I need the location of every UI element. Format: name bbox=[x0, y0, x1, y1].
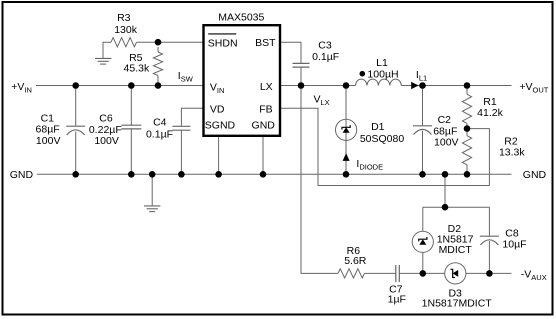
ground (R3) bbox=[95, 58, 111, 64]
resistor R1 bbox=[462, 94, 471, 123]
wire pump node to D3 bbox=[423, 272, 445, 274]
wire LX node down to R6 bbox=[301, 86, 338, 274]
svg-text:0.1µF: 0.1µF bbox=[312, 51, 339, 63]
ground (GND rail) bbox=[144, 206, 160, 212]
svg-text:C3: C3 bbox=[318, 40, 332, 52]
svg-text:0.1µF: 0.1µF bbox=[146, 129, 173, 141]
wire VD pin to C4 bbox=[181, 108, 203, 126]
wire R1 to FB node bbox=[466, 123, 468, 128]
node R1/R2/FB junction bbox=[464, 125, 471, 132]
node D2/C8 link junction bbox=[442, 204, 449, 211]
wire C2 to GND rail bbox=[422, 131, 424, 175]
wire FB node to R2 bbox=[466, 129, 468, 136]
capacitor C4 bbox=[172, 126, 190, 130]
svg-text:FB: FB bbox=[259, 104, 272, 116]
wire GND pin to GND rail bbox=[262, 136, 264, 175]
current arrow I_L1 bbox=[411, 82, 418, 89]
diode D1 (schottky) bbox=[336, 119, 357, 140]
node GND pin junction bbox=[260, 171, 267, 178]
capacitor C2 (polarized) bbox=[413, 126, 432, 135]
svg-text:C1: C1 bbox=[41, 112, 55, 124]
svg-text:10µF: 10µF bbox=[502, 238, 526, 250]
wire C3 to LX rail bbox=[300, 67, 302, 85]
svg-text:L1: L1 bbox=[376, 57, 388, 69]
diode D2 (schottky) bbox=[412, 231, 433, 252]
svg-text:SHDN: SHDN bbox=[208, 37, 238, 49]
wire +VOUT rail to C2 bbox=[422, 86, 424, 126]
wire GND rail down to D2/C8 node bbox=[444, 174, 446, 207]
node C6 top junction bbox=[128, 82, 135, 89]
svg-text:BST: BST bbox=[255, 37, 276, 49]
svg-text:C2: C2 bbox=[438, 114, 452, 126]
wire R6 to C7 bbox=[365, 272, 396, 274]
wire C7 to pump node bbox=[399, 272, 423, 274]
svg-text:100V: 100V bbox=[434, 137, 459, 149]
node R2 bottom junction bbox=[464, 171, 471, 178]
svg-text:GND: GND bbox=[252, 120, 276, 132]
wire L1 to +VOUT bbox=[401, 85, 511, 87]
node C6 bottom junction bbox=[128, 171, 135, 178]
resistor R6 bbox=[338, 269, 365, 278]
svg-text:R3: R3 bbox=[117, 12, 131, 24]
wire D2/C8 top link bbox=[423, 206, 490, 208]
svg-text:VD: VD bbox=[210, 104, 225, 116]
wire D2 anode to pump node bbox=[422, 252, 424, 273]
wire +VOUT rail to R1 bbox=[466, 86, 468, 95]
svg-text:LX: LX bbox=[260, 81, 273, 93]
svg-text:41.2k: 41.2k bbox=[477, 107, 503, 119]
wire +VIN rail to C1 bbox=[75, 86, 77, 126]
svg-text:GND: GND bbox=[523, 169, 547, 181]
svg-text:C6: C6 bbox=[99, 112, 113, 124]
wire R3 left to ground bbox=[103, 42, 111, 58]
node LX/D1 junction bbox=[343, 82, 350, 89]
wire link to C8 bbox=[488, 207, 490, 236]
node C1 bottom junction bbox=[72, 171, 79, 178]
svg-text:100V: 100V bbox=[36, 135, 61, 147]
node C4 bottom junction bbox=[178, 171, 185, 178]
resistor R3 bbox=[111, 38, 136, 47]
node L1/C2/+VOUT junction bbox=[419, 82, 426, 89]
capacitor C3 bbox=[293, 63, 310, 67]
wire LX pin to L1 bbox=[280, 85, 356, 87]
node D1 bottom junction bbox=[343, 171, 350, 178]
diode D3 (schottky) bbox=[445, 263, 466, 284]
svg-text:100V: 100V bbox=[94, 135, 119, 147]
svg-text:50SQ080: 50SQ080 bbox=[360, 133, 405, 145]
wire R2 to GND rail bbox=[466, 165, 468, 175]
svg-text:MDICT: MDICT bbox=[439, 244, 473, 256]
svg-text:68µF: 68µF bbox=[36, 124, 60, 136]
wire BST pin to C3 bbox=[280, 42, 301, 63]
node charge-pump junction bbox=[420, 270, 427, 277]
wire D3 to -VAUX output bbox=[466, 272, 512, 274]
svg-text:MAX5035: MAX5035 bbox=[218, 11, 264, 23]
resistor R2 bbox=[462, 136, 471, 165]
wire R5 to +VIN rail bbox=[157, 76, 159, 86]
op-amp U1: MAX5035 regulator IC box bbox=[204, 25, 281, 136]
wire FB pin to R1/R2 divider node bbox=[280, 108, 489, 185]
node ground-symbol junction bbox=[149, 171, 156, 178]
svg-text:GND: GND bbox=[10, 169, 34, 181]
wire C8 to -VAUX rail bbox=[488, 241, 490, 273]
node R5 bottom junction bbox=[155, 82, 162, 89]
svg-text:13.3k: 13.3k bbox=[499, 146, 525, 158]
wire LX node through D1 to GND rail bbox=[345, 86, 347, 175]
svg-text:5.6R: 5.6R bbox=[344, 255, 367, 267]
capacitor C6 bbox=[121, 125, 141, 129]
svg-text:100µH: 100µH bbox=[367, 69, 398, 81]
capacitor C8 (polarized) bbox=[480, 236, 499, 245]
wire R3/R5 node to SHDN pin bbox=[137, 41, 204, 43]
wire SHDN node to R5 bbox=[157, 47, 159, 52]
wire +VIN rail to VIN pin bbox=[36, 85, 204, 87]
node SGND junction bbox=[215, 171, 222, 178]
node R1 top junction bbox=[464, 82, 471, 89]
wire GND rail bbox=[37, 173, 512, 175]
node D2 branch junction bbox=[442, 171, 449, 178]
node LX/C3 junction bbox=[298, 82, 305, 89]
wire GND rail to ground symbol bbox=[151, 174, 153, 205]
svg-text:68µF: 68µF bbox=[433, 125, 457, 137]
svg-text:1µF: 1µF bbox=[388, 294, 406, 306]
wire C1 to GND rail bbox=[75, 132, 77, 175]
wire link to D2 cathode bbox=[422, 207, 424, 231]
capacitor C7 bbox=[396, 265, 400, 282]
current arrow I_DIODE bbox=[343, 153, 350, 161]
node C2 bottom junction bbox=[419, 171, 426, 178]
svg-text:130k: 130k bbox=[114, 24, 138, 36]
wire +VIN rail to C6 bbox=[130, 86, 132, 126]
wire C4 to GND rail bbox=[180, 130, 182, 174]
node R3/R5/SHDN junction bbox=[155, 39, 162, 46]
wire SGND pin to GND rail bbox=[218, 136, 220, 175]
svg-text:45.3k: 45.3k bbox=[124, 63, 150, 75]
svg-text:1N5817MDICT: 1N5817MDICT bbox=[422, 298, 493, 310]
node C8/-VAUX junction bbox=[486, 270, 493, 277]
svg-text:C4: C4 bbox=[153, 116, 167, 128]
capacitor C1 (polarized) bbox=[66, 126, 85, 135]
svg-text:D1: D1 bbox=[371, 121, 385, 133]
svg-text:SGND: SGND bbox=[205, 120, 236, 132]
resistor R5 bbox=[153, 52, 162, 76]
inductor L1 bbox=[356, 71, 402, 86]
wire C6 to GND rail bbox=[130, 129, 132, 174]
node C1 top junction bbox=[72, 82, 79, 89]
